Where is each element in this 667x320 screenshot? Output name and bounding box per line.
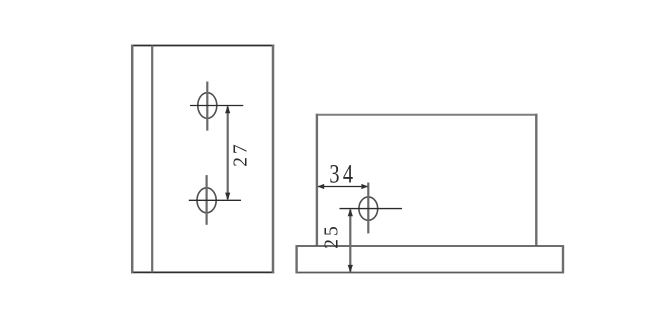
right view base plate: left edge <box>295 245 297 273</box>
centerline vertical of hole H3 <box>367 183 369 234</box>
svg-text:3: 3 <box>329 160 339 189</box>
svg-text:25: 25 <box>321 223 342 249</box>
dimension 25: text label <box>321 223 342 249</box>
right view base plate: top edge <box>296 245 564 247</box>
right view base plate: bottom edge <box>296 272 564 274</box>
dimension 34: text label, digit 4 <box>343 160 353 189</box>
centerline vertical of hole H1 <box>206 82 208 131</box>
dimension 25: dimension line <box>349 210 351 272</box>
centerline vertical of hole H2 <box>206 175 208 225</box>
svg-text:4: 4 <box>343 160 353 189</box>
left view outline: top edge <box>131 45 274 47</box>
dimension 27: upper arrowhead <box>225 106 230 114</box>
centerline horizontal of hole H3 <box>340 208 403 210</box>
svg-text:27: 27 <box>231 141 252 167</box>
centerline horizontal of hole H1 <box>190 105 243 107</box>
left view outline: right edge <box>272 45 275 274</box>
dimension 34: right arrowhead <box>361 184 368 189</box>
left view outline: left edge <box>131 45 134 274</box>
hole H3 (right view) <box>359 197 378 220</box>
left view outline: bottom edge <box>131 271 274 273</box>
left view flange edge line <box>151 46 153 273</box>
dimension 27: dimension line between hole centers <box>227 107 229 200</box>
dimension 27: lower arrowhead <box>225 193 230 201</box>
dimension 27: text label <box>231 141 252 167</box>
right view body outline: top edge <box>316 114 538 116</box>
dimension 34: text label, digit 3 <box>329 160 339 189</box>
dimension 25: upper arrowhead <box>348 209 353 217</box>
hole H1 (top, left view) <box>198 93 217 119</box>
right view body outline: right edge <box>535 114 537 246</box>
right view body outline: left edge <box>316 114 318 246</box>
centerline horizontal of hole H2 <box>189 199 241 201</box>
dimension 25: lower arrowhead <box>348 265 353 273</box>
right view base plate: right edge <box>562 245 564 273</box>
hole H2 (bottom, left view) <box>197 188 216 213</box>
dimension 34: left arrowhead <box>317 184 324 189</box>
dimension 34: dimension line <box>318 186 367 188</box>
